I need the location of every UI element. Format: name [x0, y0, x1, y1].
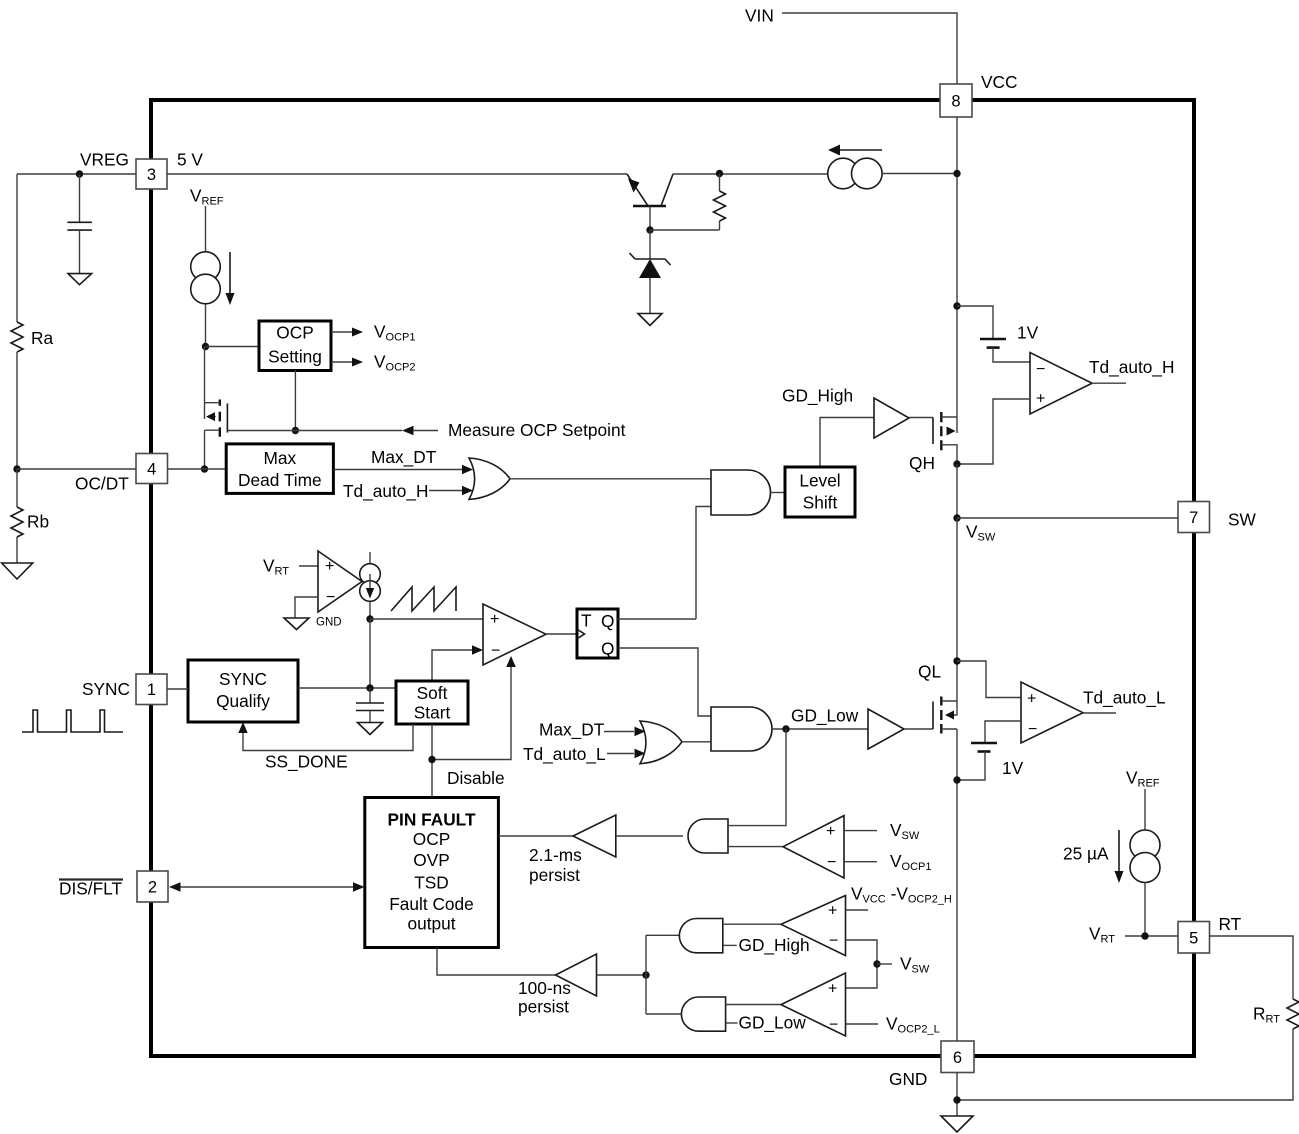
wire RRT to ground line	[957, 1029, 1293, 1100]
svg-text:QH: QH	[909, 453, 935, 473]
wire VOCP1 output	[331, 331, 352, 333]
ground Rb	[2, 563, 33, 579]
svg-text:6: 6	[953, 1049, 962, 1067]
svg-text:7: 7	[1189, 509, 1198, 527]
wire cap to ground	[79, 230, 81, 274]
wire OCP2H minus to VSW node	[846, 940, 878, 988]
svg-text:DIS/FLT: DIS/FLT	[59, 879, 122, 899]
node VREG junction	[76, 170, 83, 177]
svg-text:SYNC: SYNC	[82, 679, 130, 699]
wire soft start bottom to pin fault	[431, 724, 433, 798]
wire VIN	[782, 13, 957, 84]
wire flipflop Q output	[618, 618, 696, 620]
wire AND low output	[772, 728, 868, 730]
op-amp PWM comparator	[483, 604, 546, 665]
transistor OCP setting mosfet	[205, 400, 228, 437]
wire OC/DT to Rb	[16, 469, 18, 507]
node GD_Low junction	[782, 725, 789, 732]
transistor QL	[933, 661, 957, 734]
svg-text:T: T	[581, 611, 592, 631]
arrow Max_DT low input	[635, 727, 646, 737]
wire pin fault to 2.1ms buffer	[498, 835, 573, 837]
svg-text:8: 8	[951, 93, 960, 111]
wire Td_auto_H output	[1092, 382, 1126, 384]
op-amp Td_auto_H comparator	[1030, 353, 1092, 415]
arrow Max_DT input	[462, 465, 473, 475]
wire OCP box bottom to gate line	[294, 371, 296, 431]
svg-text:+: +	[828, 903, 837, 920]
svg-text:3: 3	[147, 166, 156, 184]
pin 5 RT	[1178, 922, 1210, 954]
capacitor soft start	[356, 703, 384, 711]
svg-text:Ra: Ra	[31, 328, 53, 348]
wire to 1V battery H	[957, 306, 993, 339]
battery 1V high-side	[980, 338, 1006, 341]
svg-text:Td_auto_H: Td_auto_H	[343, 481, 429, 501]
svg-text:Shift: Shift	[803, 493, 838, 513]
svg-text:Setting: Setting	[268, 347, 322, 367]
arrow into PWM bottom	[506, 656, 516, 667]
ground main	[941, 1116, 973, 1132]
node QL drain junction	[953, 657, 960, 664]
wire VOCP2 output	[331, 361, 352, 363]
pin 6 GND	[941, 1041, 974, 1073]
svg-text:Max_DT: Max_DT	[371, 447, 437, 467]
wire Td_auto_L stub	[607, 753, 634, 755]
op-amp OCP2L comparator	[781, 973, 846, 1036]
arrow Td_auto_H input	[462, 486, 473, 496]
node QH drain branch	[953, 302, 960, 309]
op-amp OCP1 comparator	[783, 816, 844, 878]
wire base lead	[649, 206, 651, 230]
wire VREF lead	[205, 206, 207, 252]
pin 4 OC/DT	[136, 454, 168, 484]
svg-text:OCP: OCP	[413, 829, 450, 849]
wire ramp node down to cap node	[369, 619, 371, 688]
op-amp VRT buffer	[318, 551, 362, 612]
wire VSW stub ocp1	[844, 830, 877, 832]
wire pin6 to ground	[956, 1073, 958, 1117]
gate AND low-side	[711, 707, 772, 751]
wire soft start to PWM minus	[432, 650, 472, 681]
svg-text:Qualify: Qualify	[216, 691, 270, 711]
transistor Q regulator	[627, 174, 673, 206]
wire comparator to AND 2.1ms	[728, 846, 783, 848]
svg-text:+: +	[490, 611, 499, 628]
node ss cap junction	[366, 684, 373, 691]
wire measure stub	[413, 430, 438, 432]
svg-text:GD_High: GD_High	[782, 386, 853, 406]
wire battery to comparator minus	[993, 348, 1030, 362]
block Level Shift	[785, 467, 855, 517]
svg-text:Dead Time: Dead Time	[238, 470, 322, 490]
wire OR to AND	[510, 478, 711, 480]
wire VOCP2L stub	[846, 1023, 879, 1025]
buffer gate driver high	[874, 398, 909, 438]
wire current source to VCC rail	[882, 173, 957, 175]
svg-text:VIN: VIN	[745, 6, 774, 26]
svg-text:−: −	[829, 933, 838, 950]
wire GD_Low sense down	[728, 729, 786, 826]
svg-text:100-ns: 100-ns	[518, 978, 571, 998]
svg-text:SYNC: SYNC	[219, 669, 267, 689]
battery 1V low-side	[971, 742, 997, 745]
svg-text:QL: QL	[918, 662, 941, 682]
wire ramp to PWM comparator	[370, 618, 483, 620]
resistor RRT	[1287, 999, 1299, 1029]
wire PWM output to flipflop	[546, 633, 577, 635]
wire OC/DT to pin 4	[17, 468, 136, 470]
block Soft Start	[396, 681, 468, 724]
gate AND GD_Low fault	[681, 997, 725, 1031]
svg-text:5 V: 5 V	[177, 150, 203, 170]
arrow measure OCP setpoint	[402, 426, 414, 435]
svg-text:4: 4	[147, 461, 156, 479]
wire SS_DONE	[243, 724, 413, 751]
svg-text:TSD: TSD	[414, 873, 449, 893]
waveform sawtooth	[391, 587, 456, 611]
current source VCC bias	[828, 145, 882, 189]
resistor Ra	[11, 322, 23, 352]
svg-text:−: −	[827, 854, 836, 871]
svg-text:VREG: VREG	[80, 150, 129, 170]
svg-text:Soft: Soft	[417, 683, 448, 703]
wire Max_DT low stub	[604, 731, 634, 733]
svg-text:+: +	[325, 558, 334, 575]
wire comparator to AND GD_High	[723, 923, 781, 925]
svg-text:−: −	[829, 1017, 838, 1034]
wire left rail upper	[16, 174, 18, 322]
wire QL source rail down	[956, 729, 958, 1041]
op-amp OCP2H comparator	[781, 896, 846, 956]
svg-text:1: 1	[147, 681, 156, 699]
svg-text:OVP: OVP	[413, 850, 450, 870]
wire VREF rail to mosfet	[204, 347, 206, 420]
wire flipflop Qbar output	[618, 648, 711, 716]
wire buffer to QH gate	[909, 417, 933, 419]
pin 7 SW	[1178, 502, 1210, 533]
wire Td_auto_L output	[1083, 712, 1116, 714]
wire OR low to AND low	[682, 741, 711, 743]
svg-text:Start: Start	[414, 703, 451, 723]
node VSW junction	[953, 514, 960, 521]
wire pin fault bottom to 100ns buffer	[437, 948, 556, 976]
wire mosfet source down to pin4 line	[204, 430, 206, 469]
node ground junction	[953, 1096, 960, 1103]
node QH source junction	[953, 460, 960, 467]
block Max Dead Time	[226, 444, 333, 494]
arrow PWM minus input	[472, 645, 483, 654]
arrow into pin fault	[353, 882, 365, 891]
pin 8 VCC	[940, 84, 972, 117]
IC boundary	[151, 100, 1194, 1056]
svg-text:2: 2	[148, 879, 157, 897]
svg-text:−: −	[326, 589, 335, 606]
wire 2.1ms buffer input	[616, 835, 683, 837]
wire comparator to AND GD_Low	[726, 1004, 781, 1006]
pin 1 SYNC	[136, 674, 167, 705]
wire base to resistor bottom	[650, 229, 720, 231]
svg-text:OCP: OCP	[276, 323, 313, 343]
wire AND to level shift	[771, 492, 786, 494]
wire AND outputs join	[646, 935, 681, 1014]
wire VREF source down	[205, 304, 207, 347]
wire VREF right lead	[1144, 789, 1146, 830]
node VREF-OCP junction	[202, 343, 209, 350]
gate OR high-side	[469, 458, 510, 499]
node VRT junction	[1141, 932, 1148, 939]
node base junction	[646, 226, 653, 233]
wire 5V rail to transistor	[167, 173, 627, 175]
buffer 2.1-ms persist	[573, 815, 616, 857]
svg-text:+: +	[1036, 391, 1045, 408]
svg-text:Max: Max	[263, 448, 296, 468]
flipflop T	[577, 609, 618, 659]
wire VRT minus feedback	[295, 597, 318, 618]
wire cap lead	[369, 688, 371, 703]
wire GD_High stub	[723, 944, 737, 946]
wire 25uA to VRT node	[1144, 883, 1146, 937]
gate AND GD_High fault	[679, 919, 722, 953]
diode zener clamp	[630, 253, 671, 313]
wire VRT stub	[1125, 935, 1178, 937]
svg-text:+: +	[1027, 691, 1036, 708]
node collector-resistor junction	[716, 170, 723, 177]
svg-text:GD_Low: GD_Low	[791, 706, 859, 726]
svg-text:1V: 1V	[1002, 758, 1024, 778]
current source VREF	[191, 252, 235, 305]
node VCC rail top	[953, 170, 960, 177]
current source 25uA	[1115, 830, 1161, 883]
transistor QH	[933, 412, 957, 464]
wire VOCP1 stub	[844, 861, 877, 863]
wire mosfet gate line	[227, 430, 402, 432]
wire comparator minus to battery	[985, 721, 1021, 743]
wire cap to ground	[369, 711, 371, 723]
svg-text:−: −	[1028, 721, 1037, 738]
gate AND 2.1ms	[688, 819, 728, 853]
svg-text:5: 5	[1189, 930, 1198, 948]
wire Ra to OC/DT	[16, 352, 18, 469]
wire QH source rail to SW	[956, 464, 958, 518]
resistor Rb	[11, 507, 23, 537]
svg-text:GD_High: GD_High	[739, 935, 810, 955]
wire level shift to buffer	[820, 418, 874, 468]
arrow VOCP2	[352, 358, 363, 367]
wire 100ns buffer input	[597, 974, 647, 976]
node ramp junction	[366, 615, 373, 622]
gate AND high-side	[711, 470, 771, 515]
svg-text:SS_DONE: SS_DONE	[265, 752, 348, 772]
wire comparator plus to QH source	[960, 399, 1030, 464]
ground VREG cap	[68, 274, 92, 285]
ground zener	[638, 314, 662, 326]
svg-text:GND: GND	[316, 617, 342, 629]
node OC/DT junction	[13, 465, 20, 472]
wire to OCP Setting box	[206, 346, 260, 348]
svg-text:1V: 1V	[1017, 323, 1039, 343]
svg-text:Td_auto_L: Td_auto_L	[1083, 688, 1166, 708]
wire VREG rail	[17, 173, 136, 175]
node OCP gate junction	[292, 427, 299, 434]
wire Max_DT to OR	[333, 469, 462, 471]
svg-text:Level: Level	[799, 471, 840, 491]
svg-text:persist: persist	[518, 997, 569, 1017]
wire collector to node	[673, 173, 827, 175]
wire pin2 to pin fault	[180, 886, 353, 888]
wire VSW to pin 7	[957, 517, 1178, 519]
svg-text:Disable: Disable	[447, 768, 505, 788]
svg-text:−: −	[1036, 361, 1045, 378]
current source RT ramp	[360, 552, 381, 619]
waveform sync pulses	[22, 710, 123, 732]
wire zener lead	[649, 230, 651, 259]
svg-text:Q: Q	[601, 639, 614, 659]
arrow SS_DONE into sync qualify	[238, 722, 247, 733]
pin 3 VREG	[136, 159, 167, 189]
wire VSW node stub	[877, 963, 892, 965]
svg-text:Td_auto_H: Td_auto_H	[1089, 357, 1175, 377]
svg-text:Rb: Rb	[27, 512, 49, 532]
wire pin1 to sync qualify	[167, 688, 188, 690]
node QL source junction	[953, 776, 960, 783]
wire disable to PWM bottom	[432, 666, 511, 760]
svg-text:2.1-ms: 2.1-ms	[529, 845, 582, 865]
buffer gate driver low	[868, 709, 904, 749]
svg-text:persist: persist	[529, 865, 580, 885]
svg-text:Fault Code: Fault Code	[389, 894, 474, 914]
svg-text:output: output	[407, 914, 455, 934]
svg-text:Measure OCP Setpoint: Measure OCP Setpoint	[448, 420, 626, 440]
wire Rb to ground	[16, 537, 18, 563]
capacitor VREG bypass	[67, 222, 92, 230]
arrow into pin 2	[169, 882, 181, 891]
wire VREG cap lead	[79, 174, 81, 222]
wire buffer to QL gate	[904, 728, 933, 730]
wire VRT input	[299, 565, 318, 567]
wire resistor top lead	[719, 174, 721, 191]
wire battery to QL source rail	[957, 752, 985, 781]
wire resistor bottom lead	[719, 221, 721, 230]
wire QL drain to comparator plus	[957, 661, 1021, 698]
wire pin4 to max dead time	[168, 468, 227, 470]
buffer 100-ns persist	[556, 954, 597, 996]
svg-text:+: +	[828, 981, 837, 998]
wire Td_auto_H stub	[429, 490, 462, 492]
arrow Td_auto_L input	[635, 749, 646, 759]
resistor bias	[714, 191, 726, 221]
wire pin5 to RRT	[1209, 936, 1293, 999]
svg-text:PIN FAULT: PIN FAULT	[388, 810, 476, 830]
wire VSW rail to QL drain	[956, 518, 958, 661]
svg-text:RT: RT	[1219, 914, 1242, 934]
node pin4 mosfet junction	[201, 465, 208, 472]
node disable junction	[428, 756, 435, 763]
node VSW fault junction	[873, 960, 880, 967]
svg-text:VCC: VCC	[981, 72, 1018, 92]
svg-text:+: +	[826, 823, 835, 840]
gate OR low-side	[640, 721, 682, 764]
svg-text:SW: SW	[1228, 510, 1257, 530]
wire GD_Low stub	[726, 1022, 738, 1024]
wire VVCC stub	[846, 909, 869, 911]
svg-text:Td_auto_L: Td_auto_L	[523, 744, 606, 764]
node 100ns junction	[642, 971, 649, 978]
svg-text:−: −	[491, 643, 500, 660]
pin 2 DIS/FLT	[137, 871, 168, 902]
svg-text:GND: GND	[889, 1069, 927, 1089]
ground soft start cap	[358, 723, 383, 735]
svg-text:Q: Q	[601, 611, 614, 631]
op-amp Td_auto_L comparator	[1021, 682, 1083, 743]
block OCP Setting	[259, 321, 331, 371]
wire sync qualify output	[298, 687, 396, 689]
ground VRT	[284, 618, 309, 630]
arrow VOCP1	[352, 328, 363, 337]
svg-text:GD_Low: GD_Low	[739, 1013, 807, 1033]
wire VCC rail pin8 down	[956, 117, 958, 433]
svg-text:Max_DT: Max_DT	[539, 720, 605, 740]
svg-text:OC/DT: OC/DT	[75, 474, 129, 494]
wire flipflop Q to AND lower input	[696, 507, 711, 620]
block PIN FAULT	[365, 798, 499, 948]
label DIS/FLT overline	[59, 878, 123, 880]
svg-text:25 µA: 25 µA	[1063, 844, 1109, 864]
block SYNC Qualify	[188, 660, 298, 722]
